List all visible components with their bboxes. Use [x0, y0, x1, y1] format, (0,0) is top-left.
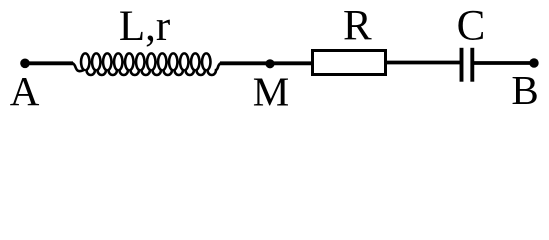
capacitor C right plate	[470, 48, 474, 82]
capacitor C left plate	[460, 48, 464, 82]
wire inductor to node M	[220, 61, 270, 65]
svg-text:L,r: L,r	[119, 3, 170, 50]
wire capacitor to node B	[474, 61, 534, 65]
node M	[265, 59, 274, 68]
resistor R	[313, 51, 386, 75]
inductor L1 coil	[73, 53, 222, 75]
svg-text:R: R	[343, 3, 372, 50]
wire resistor to capacitor	[387, 61, 460, 65]
svg-text:C: C	[457, 3, 486, 50]
wire A to inductor	[25, 61, 73, 65]
svg-text:A: A	[10, 68, 40, 109]
svg-text:B: B	[511, 67, 538, 109]
wire node M to resistor	[270, 61, 312, 65]
svg-text:M: M	[253, 69, 289, 110]
node A	[20, 59, 30, 69]
node B	[529, 58, 538, 67]
